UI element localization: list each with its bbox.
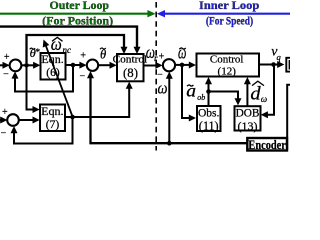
svg-text:+: + — [2, 107, 8, 118]
wire v_q down to DOB right input — [266, 65, 274, 115]
outer loop span arrow (green) — [0, 13, 148, 15]
svg-text:Outer Loop: Outer Loop — [50, 0, 110, 12]
svg-text:Inner Loop: Inner Loop — [199, 0, 259, 12]
wire Eqn7-node to Control8 bottom — [73, 87, 130, 117]
svg-text:(8): (8) — [123, 66, 138, 80]
svg-text:−: − — [3, 69, 9, 80]
wire S1 to Eqn6 with node — [21, 64, 34, 66]
wire theta-star node down to Eqn7 upper input — [27, 65, 35, 109]
block Encoder — [247, 138, 287, 151]
svg-text:a: a — [186, 80, 196, 100]
node theta-star — [24, 63, 29, 68]
svg-text:−: − — [79, 71, 85, 82]
svg-text:(11): (11) — [199, 119, 219, 133]
motor block (clipped at edge) — [286, 58, 295, 72]
svg-text:nc: nc — [63, 45, 72, 55]
wire Eqn7 output node — [65, 116, 73, 118]
label theta-tilde-star — [30, 46, 41, 60]
label omega_r — [146, 42, 158, 63]
svg-text:(13): (13) — [238, 119, 258, 133]
block Control (12) — [197, 54, 260, 77]
wire DOB output up to Control12 (d-hat) — [246, 82, 248, 106]
svg-text:DOB: DOB — [236, 108, 260, 120]
wire theta-star branch (y=35) into Control (8) top-left — [27, 35, 125, 63]
node omega-tilde — [180, 63, 185, 68]
summing junction S4 — [7, 114, 19, 126]
wire S2 to Control8 — [98, 64, 110, 66]
label v_q — [271, 45, 281, 63]
svg-text:ω: ω — [158, 79, 168, 98]
inner loop span arrow (blue) — [165, 13, 290, 15]
wire Eqn6 to S2 with node — [66, 64, 81, 66]
wire node to Obs input — [182, 65, 190, 118]
svg-text:+: + — [80, 50, 86, 61]
label omega-hat-nc — [51, 34, 71, 55]
svg-text:ω: ω — [261, 94, 267, 104]
svg-text:ob: ob — [197, 93, 205, 102]
encoder feedback wire to S2 with node — [91, 76, 248, 143]
svg-text:Control: Control — [210, 53, 244, 65]
block Eqn (6) — [41, 53, 66, 80]
svg-text:−: − — [1, 128, 7, 139]
node encoder feedback — [167, 141, 172, 146]
label theta-tilde — [100, 46, 107, 61]
input arrow lower reference — [0, 119, 4, 121]
svg-text:(7): (7) — [46, 119, 60, 131]
svg-text:Encoder: Encoder — [248, 138, 286, 152]
label omega-tilde — [178, 42, 186, 63]
wire Control12 to motor with node (v_q) — [259, 64, 279, 66]
svg-text:Obs.: Obs. — [198, 108, 220, 120]
wire Eqn7-node down to S4 minus — [14, 117, 73, 144]
adaptation arrow through Eqn (6) — [46, 45, 73, 117]
summing junction S3 — [163, 59, 175, 71]
wire Obs output up to Control12 with node — [208, 82, 210, 106]
wire S3 to Control12 with node — [175, 64, 189, 66]
wire node to DOB top — [209, 92, 239, 100]
svg-text:Control: Control — [113, 53, 148, 65]
svg-text:+: + — [4, 52, 10, 63]
node v_q — [271, 62, 276, 67]
node after Eqn6 — [71, 63, 76, 68]
block DOB (13) — [235, 106, 261, 130]
label d-hat-omega — [250, 81, 267, 104]
wire S4 to Eqn7 lower input — [19, 119, 34, 121]
wire top feedback (y=26.6) into Control (8) top-right — [0, 27, 137, 49]
block Control (8) — [117, 54, 144, 81]
svg-text:(12): (12) — [218, 65, 237, 77]
block Obs (11) — [197, 106, 221, 131]
wire motor down to encoder (clipped) — [287, 85, 290, 150]
svg-text:Eqn.: Eqn. — [41, 104, 63, 118]
input arrow theta-ref — [0, 64, 5, 66]
svg-text:ω: ω — [178, 42, 186, 63]
svg-text:d: d — [250, 84, 261, 105]
svg-text:(For Speed): (For Speed) — [206, 14, 253, 28]
summing junction S2 — [87, 59, 98, 70]
summing junction S1 — [10, 60, 22, 72]
svg-text:r: r — [154, 53, 158, 63]
label a-tilde-ob — [186, 80, 205, 101]
wire Control8 to S3 (omega_r) — [144, 65, 157, 67]
node a-tilde-ob — [206, 89, 211, 94]
dashed boundary line — [155, 2, 157, 151]
block Eqn (7) — [40, 105, 65, 132]
svg-text:ω: ω — [51, 34, 62, 54]
wire node to S1 minus input — [15, 65, 73, 92]
wire node up to S3 minus — [168, 77, 170, 144]
